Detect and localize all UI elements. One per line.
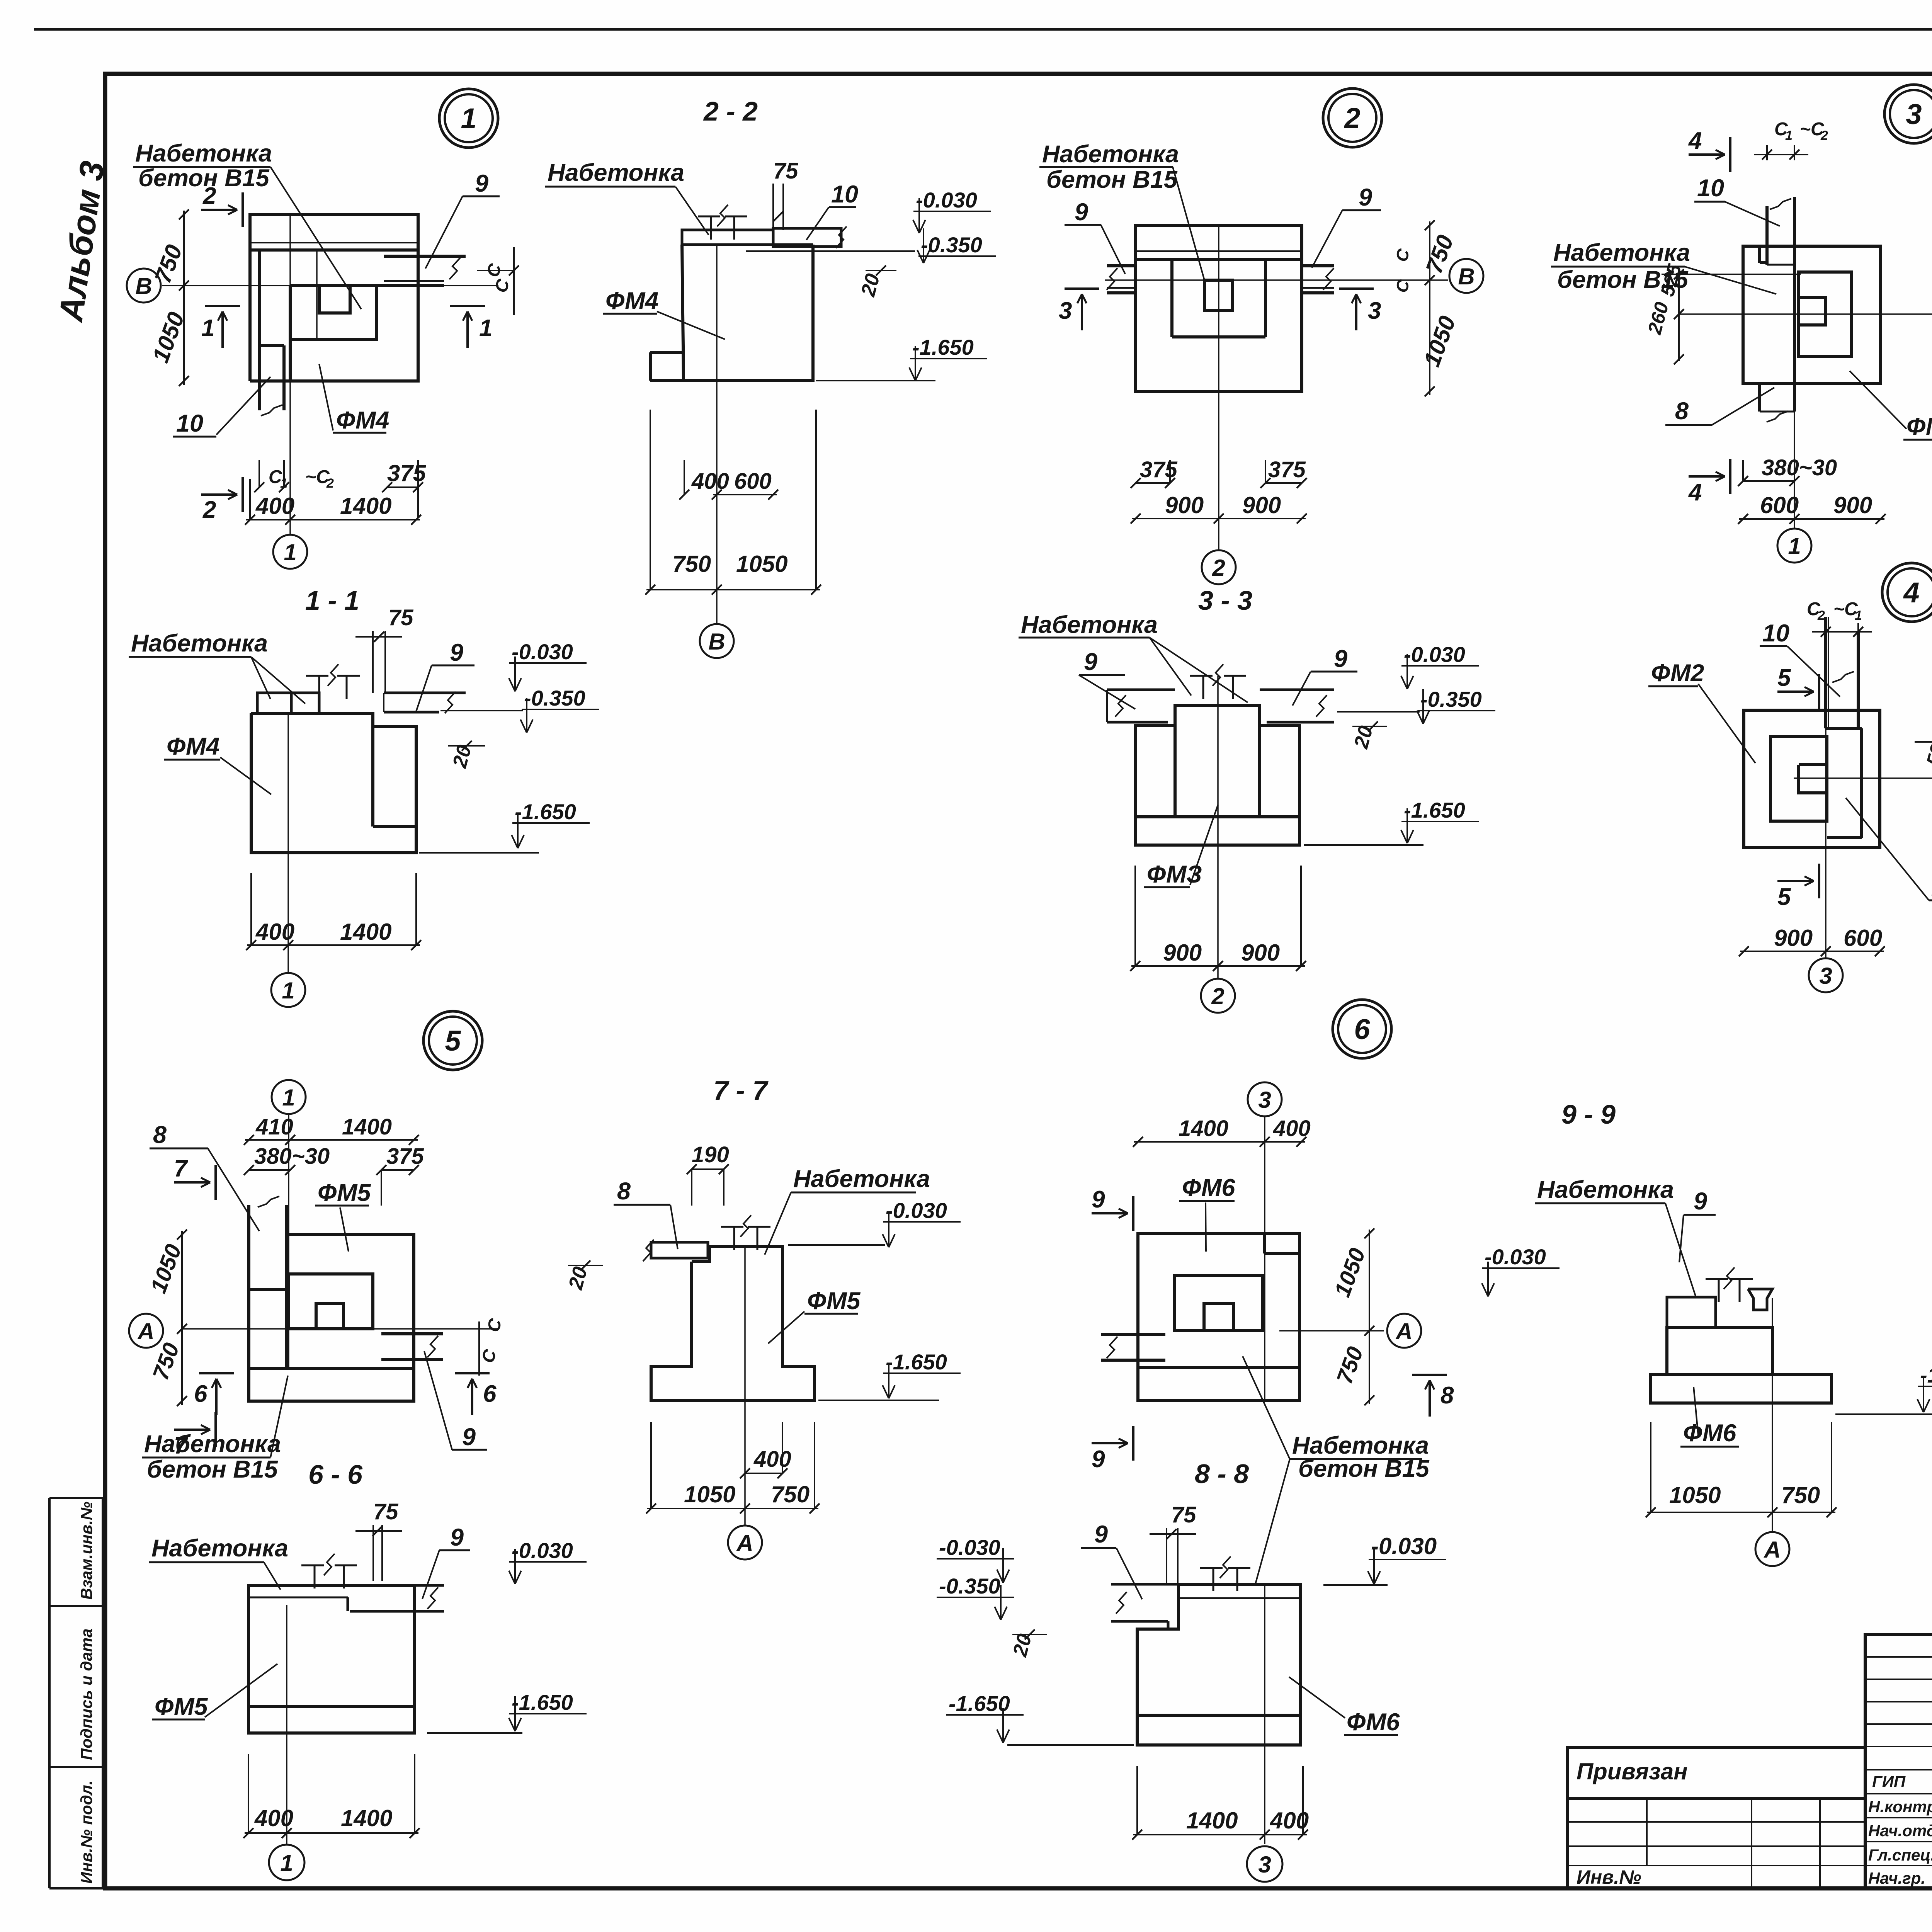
svg-text:600: 600 — [1760, 492, 1799, 518]
svg-text:Набетонка: Набетонка — [1537, 1176, 1674, 1203]
svg-text:1: 1 — [479, 315, 492, 342]
svg-text:ФМ4: ФМ4 — [336, 407, 389, 434]
svg-text:10: 10 — [1762, 620, 1789, 647]
svg-text:900: 900 — [1774, 925, 1813, 951]
svg-text:4: 4 — [1903, 577, 1919, 609]
svg-text:9: 9 — [462, 1423, 476, 1451]
detail2 inner pocket — [1204, 280, 1233, 310]
svg-text:3: 3 — [1819, 963, 1832, 989]
detail4 right strip — [1827, 727, 1862, 730]
svg-text:6: 6 — [194, 1381, 207, 1407]
detail3 inner stakan — [1798, 272, 1851, 356]
svg-text:600: 600 — [1844, 925, 1882, 951]
svg-text:400: 400 — [753, 1447, 791, 1472]
svg-text:Набетонка: Набетонка — [793, 1165, 930, 1192]
svg-text:В: В — [708, 629, 725, 655]
detail6 vertical dim 1050 750 — [1369, 1230, 1370, 1404]
detail 1 small square — [319, 286, 350, 313]
svg-text:1 - 1: 1 - 1 — [305, 585, 359, 616]
svg-text:ФМ6: ФМ6 — [1182, 1174, 1235, 1201]
svg-text:ГИП: ГИП — [1872, 1772, 1906, 1791]
svg-text:2: 2 — [326, 476, 334, 491]
6-6 beam 9 right — [381, 1584, 444, 1587]
detail4 axis — [1794, 777, 1932, 779]
svg-text:1400: 1400 — [340, 919, 391, 945]
privyazan box — [1568, 1748, 1865, 1888]
2-2 beam 10 top — [773, 228, 841, 247]
svg-text:3: 3 — [1258, 1087, 1271, 1113]
svg-text:380~30: 380~30 — [254, 1144, 330, 1169]
3-3 axis circle 2 — [1217, 676, 1219, 979]
svg-text:ФМ6: ФМ6 — [1347, 1709, 1400, 1736]
3-3 column stub — [1202, 676, 1204, 699]
detail3 4 section marks — [1689, 153, 1723, 156]
svg-text:10: 10 — [176, 410, 203, 437]
6-6 nabetonka layer — [248, 1584, 373, 1587]
svg-text:9: 9 — [1094, 1521, 1108, 1548]
detail 5 designation circle — [423, 1011, 482, 1070]
svg-text:900: 900 — [1242, 492, 1281, 518]
svg-text:8: 8 — [1440, 1382, 1454, 1409]
svg-text:-0.350: -0.350 — [1420, 687, 1482, 711]
svg-text:Нач.гр.: Нач.гр. — [1868, 1869, 1925, 1887]
svg-text:Набетонка: Набетонка — [548, 159, 684, 186]
detail5 axis circle 1 top — [272, 1080, 306, 1114]
7-7 T footing profile — [651, 1247, 815, 1400]
svg-text:Подпись и дата: Подпись и дата — [77, 1629, 95, 1760]
svg-text:9 - 9: 9 - 9 — [1561, 1099, 1616, 1129]
section mark 1 left — [221, 313, 224, 348]
detail2 3 section marks — [1081, 296, 1083, 330]
svg-text:1400: 1400 — [1186, 1808, 1238, 1833]
left stamp boxes — [48, 1498, 51, 1888]
svg-text:2: 2 — [1820, 128, 1828, 143]
svg-text:10: 10 — [831, 181, 858, 208]
detail2 column — [1170, 260, 1173, 337]
svg-text:2: 2 — [1211, 983, 1224, 1009]
svg-text:400: 400 — [254, 1805, 293, 1831]
svg-text:Инв.№: Инв.№ — [1577, 1866, 1641, 1888]
detail4 axis circle 3 — [1825, 728, 1827, 838]
svg-text:1: 1 — [282, 978, 294, 1003]
7-7 beam 8 left — [651, 1242, 708, 1258]
svg-text:750: 750 — [771, 1481, 810, 1507]
svg-text:Нач.отд: Нач.отд — [1868, 1821, 1932, 1840]
svg-text:-0.030: -0.030 — [1371, 1533, 1437, 1559]
axis line B — [162, 285, 498, 286]
svg-text:2: 2 — [202, 497, 216, 523]
svg-text:375: 375 — [1140, 457, 1178, 482]
detail3 notch — [1798, 298, 1826, 325]
svg-text:-0.030: -0.030 — [512, 639, 573, 664]
detail 1 main block FM4 — [250, 286, 290, 381]
detail 1 inner pocket — [290, 286, 376, 339]
detail3 main square — [1743, 246, 1881, 384]
2-2 axis circle B — [716, 245, 718, 623]
svg-text:-0.030: -0.030 — [1485, 1245, 1546, 1269]
svg-text:6: 6 — [1354, 1013, 1370, 1045]
8-8 nabetonka slab left — [1111, 1583, 1179, 1586]
svg-text:9: 9 — [450, 1524, 464, 1551]
svg-text:-1.650: -1.650 — [515, 799, 576, 824]
6-6 main block FM5 — [248, 1585, 415, 1733]
svg-text:75: 75 — [388, 605, 413, 630]
1-1 axis circle 1 — [287, 713, 289, 973]
section mark 2 top — [201, 209, 236, 211]
9-9 column stub — [1718, 1279, 1720, 1302]
detail 1 top beam — [250, 214, 418, 250]
svg-text:4: 4 — [1688, 479, 1702, 506]
svg-text:8: 8 — [153, 1121, 167, 1148]
svg-text:бетон В15: бетон В15 — [1046, 166, 1178, 193]
detail 1 vertical dims 750/1050 — [183, 211, 185, 385]
svg-text:1: 1 — [284, 539, 296, 565]
1-1 nabetonka blocks — [257, 693, 291, 713]
section mark 2 bottom — [201, 493, 236, 496]
svg-text:1: 1 — [461, 102, 476, 134]
svg-text:-0.030: -0.030 — [886, 1198, 947, 1223]
svg-text:-1.650: -1.650 — [512, 1690, 573, 1714]
detail2 left beam 9 — [1107, 264, 1136, 267]
svg-text:-0.350: -0.350 — [921, 233, 982, 257]
detail4 notch — [1799, 765, 1827, 793]
detail5 inner stakan — [289, 1274, 373, 1329]
detail4 5 marks — [1777, 690, 1812, 693]
svg-text:-1.650: -1.650 — [949, 1691, 1010, 1716]
detail 2 plan — [1323, 88, 1382, 147]
detail3 axis — [1679, 313, 1932, 315]
detail2 main block — [1136, 260, 1302, 391]
svg-text:410: 410 — [255, 1114, 293, 1139]
svg-text:Набетонка: Набетонка — [144, 1430, 281, 1458]
svg-text:7 - 7: 7 - 7 — [713, 1075, 769, 1105]
svg-text:1: 1 — [201, 315, 214, 342]
svg-text:190: 190 — [692, 1142, 729, 1167]
title block signatures table — [1865, 1634, 1932, 1888]
svg-text:5: 5 — [1777, 665, 1791, 691]
svg-text:3 - 3: 3 - 3 — [1198, 585, 1252, 616]
svg-text:7: 7 — [174, 1155, 188, 1182]
svg-text:Гл.спец.: Гл.спец. — [1868, 1846, 1932, 1864]
detail6 label 9 marks — [1092, 1212, 1126, 1214]
detail5 main block — [287, 1235, 414, 1368]
detail5 vertical dims 1050 750 — [181, 1231, 183, 1405]
svg-text:-0.030: -0.030 — [1404, 642, 1465, 667]
detail6 lower band — [1138, 1366, 1299, 1369]
svg-text:-0.030: -0.030 — [916, 188, 977, 212]
svg-text:Набетонка: Набетонка — [135, 140, 272, 167]
detail6 inner stakan — [1175, 1276, 1263, 1331]
detail 1 plan — [439, 89, 498, 148]
3-3 left slab 9 — [1107, 689, 1175, 691]
1-1 main block FM4 — [251, 713, 416, 853]
axis circle B — [127, 269, 161, 303]
svg-text:1: 1 — [1855, 608, 1862, 623]
7-7 axis circle A — [744, 1247, 746, 1526]
svg-text:3: 3 — [1906, 98, 1922, 130]
detail4 outer square — [1744, 710, 1880, 848]
detail2 top beam — [1136, 225, 1302, 260]
svg-text:Н.контр.: Н.контр. — [1868, 1798, 1932, 1816]
svg-text:1050: 1050 — [1669, 1482, 1721, 1508]
svg-text:8: 8 — [617, 1178, 631, 1205]
svg-text:900: 900 — [1163, 940, 1202, 966]
svg-text:9: 9 — [1694, 1188, 1707, 1215]
svg-text:9: 9 — [450, 639, 463, 666]
7-7 column stub — [733, 1227, 735, 1250]
svg-text:ФМ5: ФМ5 — [318, 1179, 371, 1206]
svg-text:1400: 1400 — [340, 493, 391, 519]
svg-text:750: 750 — [1781, 1482, 1820, 1508]
detail6 main rect — [1138, 1233, 1299, 1400]
svg-text:ФМ4: ФМ4 — [167, 733, 219, 760]
section mark 1 right — [466, 313, 469, 348]
svg-text:В: В — [1458, 264, 1475, 289]
detail6 left beam 9 — [1101, 1333, 1165, 1336]
detail3 beam 10 vertical — [1765, 206, 1769, 265]
detail5 beam 9 right — [381, 1332, 443, 1335]
svg-text:ФМ6: ФМ6 — [1683, 1420, 1736, 1447]
svg-text:900: 900 — [1833, 492, 1872, 518]
svg-text:1050: 1050 — [684, 1481, 735, 1507]
9-9 nabetonka slab — [1667, 1297, 1716, 1328]
detail5 bottom slab — [249, 1368, 414, 1401]
6-6 axis circle 1 — [286, 1605, 287, 1845]
detail6 8 marks — [1429, 1382, 1431, 1417]
detail4 inner square — [1770, 736, 1827, 821]
svg-text:ФМ5: ФМ5 — [155, 1693, 208, 1720]
svg-text:900: 900 — [1165, 492, 1204, 518]
svg-text:-1.650: -1.650 — [886, 1350, 947, 1374]
detail2 axis — [1105, 279, 1448, 281]
svg-text:А: А — [137, 1318, 154, 1344]
svg-text:750: 750 — [672, 551, 711, 577]
axis circle 1 bottom detail1 — [289, 381, 291, 534]
svg-text:А: А — [736, 1530, 753, 1556]
detail4 beam 10 vertical — [1824, 617, 1827, 728]
detail 3 plan — [1884, 85, 1932, 143]
svg-text:4: 4 — [1688, 128, 1702, 154]
svg-text:2: 2 — [1817, 608, 1825, 623]
svg-text:900: 900 — [1241, 940, 1280, 966]
9-9 main block — [1667, 1328, 1772, 1374]
svg-text:1400: 1400 — [341, 1805, 392, 1831]
8-8 column stub — [1213, 1568, 1214, 1591]
svg-text:8: 8 — [1675, 398, 1689, 425]
svg-text:2: 2 — [1344, 102, 1360, 134]
svg-text:-1.650: -1.650 — [1404, 798, 1465, 822]
svg-text:1400: 1400 — [1179, 1116, 1228, 1141]
3-3 bottom slab — [1135, 817, 1299, 845]
svg-text:1: 1 — [280, 1850, 293, 1876]
svg-text:9: 9 — [1359, 184, 1372, 211]
detail5 6 marks — [215, 1380, 218, 1415]
3-3 center column — [1175, 706, 1260, 817]
svg-text:Инв.№ подл.: Инв.№ подл. — [77, 1781, 95, 1884]
detail 4 plan — [1882, 563, 1932, 622]
detail5 7 marks — [174, 1181, 209, 1184]
6-6 column stub — [314, 1565, 316, 1588]
svg-text:ФМ2: ФМ2 — [1651, 660, 1704, 687]
detail 1 left beam — [248, 214, 252, 381]
svg-text:10: 10 — [1697, 175, 1724, 202]
1-1 right slab 9 — [384, 692, 466, 694]
9-9 axis circle A — [1772, 1298, 1773, 1532]
detail 1 nabetonka band — [259, 249, 384, 251]
svg-text:75: 75 — [373, 1499, 398, 1524]
svg-text:-0.030: -0.030 — [939, 1535, 1000, 1560]
svg-text:Набетонка: Набетонка — [1042, 141, 1179, 168]
svg-text:Набетонка: Набетонка — [1021, 611, 1158, 638]
1-1 column stub — [318, 676, 320, 699]
detail6 top right strip — [1263, 1233, 1266, 1253]
detail2 axis circle 2 — [1218, 225, 1219, 391]
svg-text:бетон В15: бетон В15 — [1298, 1455, 1430, 1482]
svg-text:-0.350: -0.350 — [939, 1574, 1000, 1598]
svg-text:А: А — [1395, 1318, 1412, 1344]
svg-text:1050: 1050 — [736, 551, 787, 577]
9-9 V anchor — [1748, 1289, 1772, 1310]
svg-text:5: 5 — [1777, 884, 1791, 910]
svg-text:9: 9 — [1075, 199, 1088, 226]
svg-text:9: 9 — [1092, 1186, 1105, 1213]
svg-text:ФМ5: ФМ5 — [807, 1287, 861, 1315]
svg-text:ФМ4: ФМ4 — [605, 287, 658, 315]
svg-text:Набетонка: Набетонка — [131, 630, 268, 657]
svg-text:бетон В15: бетон В15 — [138, 165, 270, 192]
svg-text:Взам.инв.№: Взам.инв.№ — [77, 1502, 95, 1600]
detail 1 column strip 10 — [259, 344, 284, 347]
outer top edge line — [34, 28, 1932, 31]
detail5 small square — [316, 1303, 344, 1329]
detail5 axis — [182, 1328, 498, 1330]
2-2 top ticks — [710, 216, 712, 240]
svg-text:6: 6 — [483, 1381, 497, 1407]
svg-text:375: 375 — [387, 460, 427, 486]
svg-text:1: 1 — [1788, 533, 1801, 559]
detail6 small square — [1204, 1303, 1233, 1331]
svg-text:400: 400 — [691, 469, 729, 494]
8-8 axis circle 3 — [1264, 1584, 1265, 1844]
svg-text:5: 5 — [445, 1025, 461, 1057]
detail6 axis — [1279, 1330, 1384, 1332]
9-9 footing — [1651, 1374, 1832, 1403]
svg-text:Набетонка: Набетонка — [1553, 239, 1690, 266]
detail 1 beam 9 right — [384, 255, 466, 258]
detail3 column strip — [1758, 246, 1761, 263]
svg-text:Набетонка: Набетонка — [151, 1535, 288, 1562]
svg-text:1400: 1400 — [342, 1114, 392, 1139]
svg-text:А: А — [1763, 1537, 1781, 1563]
svg-text:400: 400 — [255, 493, 294, 519]
3-3 right pedestal — [1260, 726, 1299, 817]
detail 6 designation circle — [1333, 1000, 1391, 1058]
svg-text:9: 9 — [475, 170, 488, 197]
3-3 left pedestal — [1135, 726, 1175, 817]
svg-text:375: 375 — [1268, 457, 1306, 482]
svg-text:-1.650: -1.650 — [1920, 1363, 1932, 1387]
2-2 nabetonka slab — [682, 230, 773, 245]
svg-text:3: 3 — [1368, 298, 1381, 324]
detail3 axis circle 1 — [1794, 412, 1795, 529]
2-2 main body FM4 — [650, 245, 684, 381]
svg-text:9: 9 — [1334, 645, 1347, 672]
svg-text:ФМ1: ФМ1 — [1906, 413, 1932, 440]
detail6 axis circle 3 top — [1248, 1082, 1282, 1116]
svg-text:1: 1 — [1785, 128, 1793, 143]
svg-text:3: 3 — [1258, 1852, 1271, 1878]
svg-text:2: 2 — [1212, 555, 1225, 581]
svg-text:3: 3 — [1059, 298, 1072, 324]
svg-text:9: 9 — [1084, 648, 1097, 675]
detail2 vertical dim right — [1429, 221, 1430, 395]
svg-text:Привязан: Привязан — [1577, 1759, 1687, 1784]
svg-text:1: 1 — [282, 1085, 295, 1111]
svg-text:8 - 8: 8 - 8 — [1195, 1459, 1249, 1489]
svg-text:600: 600 — [734, 469, 772, 494]
svg-text:-0.030: -0.030 — [512, 1538, 573, 1563]
3-3 right slab 9 — [1260, 689, 1334, 691]
detail2 right beam 9 — [1302, 264, 1334, 267]
8-8 main block FM6 — [1137, 1584, 1300, 1745]
svg-text:75: 75 — [1171, 1502, 1196, 1527]
svg-text:2 - 2: 2 - 2 — [703, 96, 758, 126]
svg-text:75: 75 — [773, 158, 798, 184]
svg-text:-1.650: -1.650 — [912, 335, 974, 359]
svg-text:бетон В15: бетон В15 — [147, 1456, 278, 1483]
svg-text:6 - 6: 6 - 6 — [308, 1459, 363, 1490]
svg-text:-0.350: -0.350 — [524, 686, 585, 710]
detail5 beam strip 8 — [247, 1205, 250, 1289]
detail1 vertical axis — [289, 214, 291, 381]
svg-text:9: 9 — [1092, 1446, 1105, 1473]
